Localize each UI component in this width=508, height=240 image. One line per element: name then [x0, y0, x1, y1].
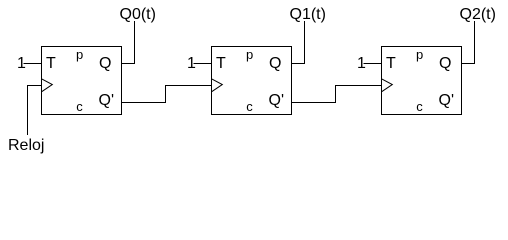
svg-text:p: p — [416, 47, 423, 62]
wire: U3 Q output to node Q2 — [462, 21, 475, 64]
wire: U2 Q output to node Q1 — [292, 21, 305, 64]
flip-flop U3 box — [382, 47, 462, 115]
svg-text:Reloj: Reloj — [8, 137, 44, 154]
wire: 1 to U1 T input — [24, 63, 42, 65]
svg-text:Q: Q — [269, 55, 281, 72]
wire: 1 to U3 T input — [364, 63, 382, 65]
svg-text:T: T — [216, 55, 226, 72]
svg-text:Q': Q' — [99, 92, 115, 109]
svg-text:p: p — [76, 47, 83, 62]
svg-text:T: T — [46, 55, 56, 72]
svg-text:Q0(t): Q0(t) — [120, 6, 156, 23]
wire: Reloj clock to U1 — [28, 86, 42, 136]
wire: 1 to U2 T input — [194, 63, 212, 65]
wire: U1 Q output to node Q0 — [122, 21, 135, 64]
svg-text:c: c — [416, 99, 423, 114]
svg-text:Q': Q' — [439, 92, 455, 109]
svg-text:Q1(t): Q1(t) — [290, 6, 326, 23]
svg-text:c: c — [76, 99, 83, 114]
svg-text:p: p — [246, 47, 253, 62]
wire: U2 Q' to U3 clock — [292, 86, 382, 103]
svg-text:Q: Q — [99, 55, 111, 72]
svg-text:c: c — [246, 99, 253, 114]
flip-flop U2 box — [212, 47, 292, 115]
clock edge triangle U2 — [212, 79, 223, 92]
svg-text:Q': Q' — [269, 92, 285, 109]
clock edge triangle U3 — [382, 79, 393, 92]
flip-flop U1 box — [42, 47, 122, 115]
svg-text:T: T — [386, 55, 396, 72]
svg-text:Q2(t): Q2(t) — [460, 6, 496, 23]
svg-text:Q: Q — [439, 55, 451, 72]
clock edge triangle U1 — [42, 79, 53, 92]
wire: U1 Q' to U2 clock — [122, 86, 212, 103]
